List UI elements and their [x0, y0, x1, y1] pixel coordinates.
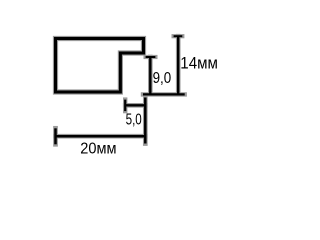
svg-text:14мм: 14мм: [180, 53, 218, 72]
svg-text:20мм: 20мм: [80, 140, 116, 157]
svg-text:9,0: 9,0: [153, 70, 172, 87]
svg-text:5,0: 5,0: [126, 111, 142, 128]
